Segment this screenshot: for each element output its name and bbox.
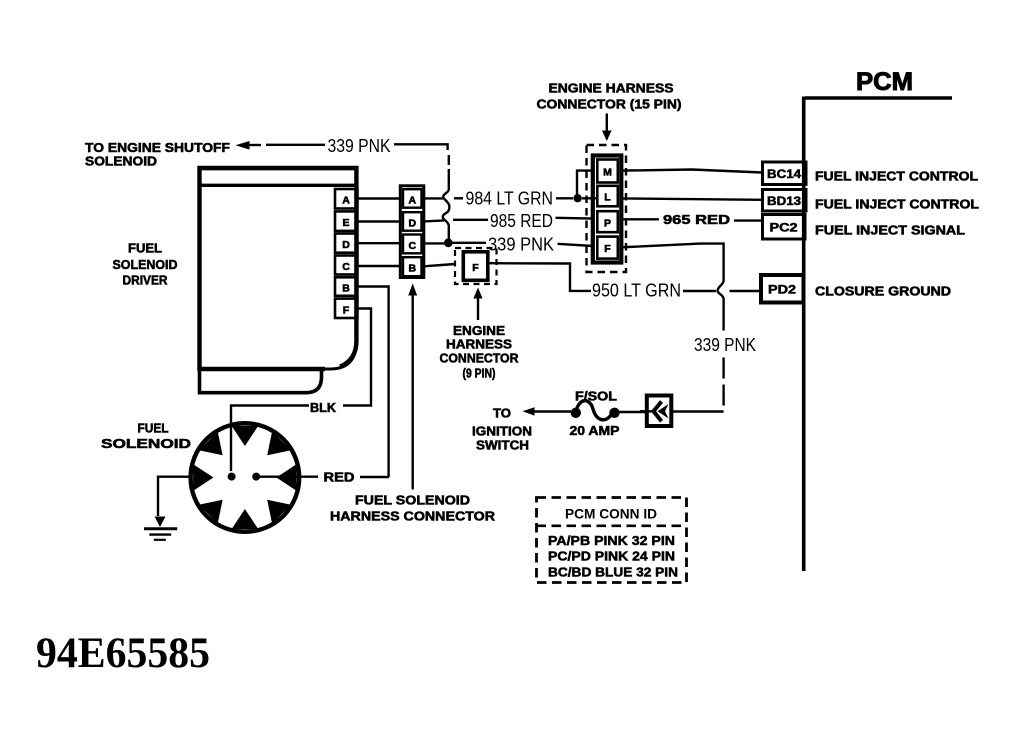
svg-text:FUEL SOLENOID: FUEL SOLENOID — [355, 494, 470, 508]
svg-text:C: C — [342, 261, 350, 273]
svg-text:DRIVER: DRIVER — [123, 274, 168, 288]
svg-text:RED: RED — [324, 471, 355, 485]
svg-text:CLOSURE GROUND: CLOSURE GROUND — [815, 285, 951, 299]
svg-text:P: P — [604, 218, 611, 230]
svg-text:(9 PIN): (9 PIN) — [463, 367, 496, 381]
wire M to BC14 — [622, 170, 763, 173]
svg-text:ENGINE HARNESS: ENGINE HARNESS — [549, 82, 674, 96]
wire 985 RED row — [424, 218, 593, 222]
driver pin E — [335, 211, 357, 231]
wire 950 LT GRN — [489, 263, 762, 300]
pin A4 — [403, 189, 422, 208]
wire RED row — [257, 476, 390, 479]
svg-text:FUEL: FUEL — [138, 422, 169, 436]
label FUEL SOLENOID DRIVER — [113, 242, 178, 288]
pin P — [597, 211, 618, 232]
svg-text:339 PNK: 339 PNK — [488, 235, 554, 255]
PCM top edge line — [805, 96, 952, 100]
svg-text:E: E — [342, 217, 349, 229]
svg-text:PC/PD PINK 24 PIN: PC/PD PINK 24 PIN — [548, 550, 675, 564]
svg-text:PC2: PC2 — [770, 223, 798, 235]
connector C15 dashed outline — [587, 145, 627, 272]
pin M — [597, 160, 618, 183]
solenoid terminal dots — [228, 473, 261, 481]
connector C15 body — [593, 156, 622, 263]
wire driver D to C4 C — [358, 242, 401, 244]
svg-text:IGNITION: IGNITION — [472, 425, 532, 439]
driver pin A — [335, 189, 357, 209]
connector C9 dashed outline — [455, 248, 497, 284]
arrow to 15-pin connector — [602, 114, 612, 142]
PCM left edge line — [802, 97, 806, 572]
wire driver A to C4 A — [358, 197, 401, 199]
svg-text:HARNESS: HARNESS — [446, 338, 512, 352]
svg-text:PD2: PD2 — [768, 285, 796, 297]
driver pin B — [335, 277, 357, 296]
svg-text:SOLENOID: SOLENOID — [101, 437, 191, 451]
wire 339 PNK middle row — [424, 243, 593, 246]
ground — [144, 517, 177, 540]
wire driver E to C4 D — [358, 220, 401, 222]
svg-text:F: F — [604, 243, 611, 255]
svg-text:PCM: PCM — [856, 68, 913, 96]
wire F15 down to fuse (339 PNK) — [622, 244, 724, 331]
PCM CONN ID table — [537, 498, 687, 583]
pin D4 — [403, 212, 422, 231]
svg-text:BLK: BLK — [310, 401, 336, 415]
svg-text:F/SOL: F/SOL — [575, 390, 617, 404]
pin C4 — [403, 235, 422, 254]
wire arrow to fuse — [534, 410, 571, 412]
svg-text:965 RED: 965 RED — [663, 212, 730, 227]
svg-text:B: B — [342, 283, 350, 295]
pin BC14 — [763, 162, 807, 185]
svg-text:BC/BD BLUE 32 PIN: BC/BD BLUE 32 PIN — [548, 566, 678, 580]
driver pin C — [335, 256, 357, 275]
fuel solenoid driver outline — [198, 168, 357, 393]
svg-text:HARNESS CONNECTOR: HARNESS CONNECTOR — [330, 510, 495, 524]
wire 339 PNK top — [249, 144, 449, 240]
svg-text:339 PNK: 339 PNK — [694, 335, 756, 355]
junction dot 339 PNK — [444, 238, 453, 247]
label ENGINE HARNESS CONNECTOR (15 PIN) — [537, 82, 682, 112]
label TO ENGINE SHUTOFF SOLENOID — [85, 141, 230, 169]
svg-text:BD13: BD13 — [767, 196, 801, 208]
svg-text:TO ENGINE SHUTOFF: TO ENGINE SHUTOFF — [85, 141, 230, 155]
wire BLK to solenoid — [231, 406, 309, 472]
svg-text:F: F — [472, 262, 479, 274]
pin PC2 — [763, 215, 806, 240]
svg-text:D: D — [409, 218, 417, 230]
pin BD13 — [763, 190, 807, 212]
svg-text:20 AMP: 20 AMP — [570, 424, 620, 438]
svg-text:TO: TO — [493, 407, 511, 421]
svg-text:SOLENOID: SOLENOID — [85, 155, 157, 169]
wire fuse to inline connector — [620, 411, 648, 413]
svg-text:M: M — [603, 167, 612, 179]
wire driver B to RED — [358, 287, 389, 478]
wire C4 B to 9-pin connector — [424, 264, 455, 266]
svg-text:L: L — [604, 192, 611, 204]
svg-text:A: A — [342, 195, 350, 207]
svg-text:C: C — [409, 240, 417, 252]
svg-text:F: F — [343, 305, 350, 317]
svg-text:SOLENOID: SOLENOID — [113, 258, 178, 272]
junction dot 984 — [573, 194, 581, 202]
svg-text:FUEL INJECT SIGNAL: FUEL INJECT SIGNAL — [815, 224, 965, 238]
connector C4 body — [400, 186, 424, 278]
svg-text:985 RED: 985 RED — [490, 211, 553, 231]
pin F15 — [597, 237, 618, 259]
arrow to engine shutoff solenoid — [236, 141, 250, 150]
svg-text:CONNECTOR (15 PIN): CONNECTOR (15 PIN) — [537, 98, 682, 112]
driver pin F — [335, 299, 357, 318]
wire P to PC2 (965 RED) — [622, 212, 763, 227]
svg-text:FUEL: FUEL — [128, 242, 162, 256]
svg-text:950 LT GRN: 950 LT GRN — [592, 281, 681, 301]
solenoid triangles — [193, 426, 297, 530]
arrow to 9-pin connector — [473, 288, 482, 321]
svg-text:94E65585: 94E65585 — [36, 630, 210, 677]
svg-text:PA/PB PINK 32 PIN: PA/PB PINK 32 PIN — [548, 534, 675, 548]
fuse F/SOL 20 AMP — [571, 401, 620, 420]
label FUEL SOLENOID HARNESS CONNECTOR — [330, 494, 495, 524]
wire 984 LT GRN row — [424, 197, 597, 199]
svg-text:A: A — [409, 195, 417, 207]
svg-text:ENGINE: ENGINE — [453, 324, 505, 338]
pin B4 — [403, 257, 422, 276]
svg-text:D: D — [342, 239, 350, 251]
label FUEL SOLENOID — [101, 422, 191, 452]
arrow to C4 fuel solenoid harness connector — [408, 284, 417, 490]
arrow to ignition switch — [523, 407, 535, 415]
svg-text:CONNECTOR: CONNECTOR — [440, 352, 519, 366]
wire driver C to C4 B — [358, 265, 401, 267]
svg-text:PCM CONN ID: PCM CONN ID — [565, 507, 657, 522]
connector C9 body pin F — [463, 252, 488, 280]
pin PD2 — [761, 275, 804, 303]
svg-text:BC14: BC14 — [767, 169, 802, 181]
svg-text:FUEL INJECT CONTROL: FUEL INJECT CONTROL — [815, 198, 979, 212]
wire branch to pin M — [577, 171, 593, 196]
pin L — [597, 186, 618, 207]
fuel solenoid circle — [191, 423, 300, 532]
wire solenoid to ground — [158, 477, 190, 516]
svg-text:SWITCH: SWITCH — [476, 439, 529, 453]
driver pin D — [335, 234, 357, 253]
inline connector (chevrons) — [640, 396, 671, 427]
svg-text:FUEL INJECT CONTROL: FUEL INJECT CONTROL — [815, 170, 978, 184]
svg-text:339 PNK: 339 PNK — [328, 136, 391, 156]
svg-text:B: B — [409, 263, 417, 275]
svg-text:984 LT GRN: 984 LT GRN — [466, 189, 554, 209]
wire L to BD13 — [622, 198, 763, 199]
label TO IGNITION SWITCH — [472, 407, 532, 453]
label ENGINE HARNESS CONNECTOR (9 PIN) — [440, 324, 519, 381]
wire driver F to BLK — [343, 309, 371, 406]
